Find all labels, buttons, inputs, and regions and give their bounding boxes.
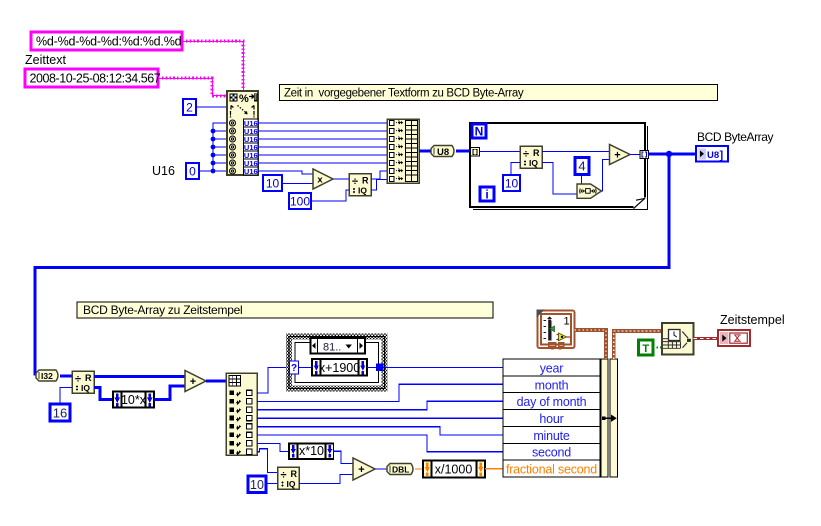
wire: 10*x to add (array)	[154, 386, 185, 400]
comment: BCD Byte-Array zu Zeitstempel	[77, 302, 493, 318]
svg-text:IQ: IQ	[358, 186, 367, 196]
wire: time string to scan node (pink string wire)	[158, 78, 227, 96]
node: Quotient &amp; Remainder (in loop)	[520, 146, 542, 168]
node: Scan From String (expanded, 7 outputs)	[227, 91, 258, 175]
numeric constant 4	[575, 158, 589, 175]
wire: index row3 to bundle day of month	[257, 401, 503, 410]
wire: format string to scan node (pink string wire)	[182, 41, 244, 91]
svg-text:month: month	[535, 378, 569, 392]
wire: 16 to QR y input	[60, 388, 72, 405]
wire: loop output to indicator and down (array)	[35, 154, 696, 376]
svg-text:10: 10	[505, 177, 519, 191]
numeric constant 16	[50, 404, 70, 421]
boolean constant T	[639, 340, 654, 355]
node: To I32 conversion	[36, 370, 58, 381]
wire: date-time to Zeitstempel (timestamp wire)	[694, 337, 719, 340]
svg-text:R: R	[85, 373, 92, 383]
indicator: Zeitstempel (timestamp)	[718, 330, 750, 346]
svg-text:IQ: IQ	[529, 158, 538, 168]
svg-text:10: 10	[250, 478, 264, 492]
structure: case frame	[289, 337, 385, 389]
wire: 100 to QR	[311, 190, 349, 201]
cluster constant (time record icon)	[536, 310, 574, 350]
svg-text:R: R	[533, 148, 540, 158]
svg-text:minute: minute	[533, 429, 570, 443]
wire: x*10 to add2	[333, 451, 353, 463]
node: Date/Time To Seconds	[662, 323, 694, 355]
svg-text:1: 1	[564, 316, 570, 328]
for loop corner flap	[634, 198, 647, 209]
wire: 2 to scan node	[196, 106, 227, 108]
wire: index row1 to case selector	[257, 368, 290, 394]
wire: logical shift to add	[602, 160, 610, 192]
wire: 0 to feed line	[199, 170, 213, 172]
numeric constant 10 (bottom)	[248, 476, 266, 493]
node: expression x/1000	[423, 461, 485, 478]
svg-text:Zeittext: Zeittext	[25, 53, 67, 67]
wire: multiply to QR	[333, 178, 349, 180]
svg-text:?: ?	[291, 363, 297, 374]
terminal i (iteration)	[480, 187, 494, 202]
node: x*10 expression	[289, 444, 333, 460]
svg-text:second: second	[532, 446, 571, 460]
wire: QR IQ output to build array row 8	[371, 180, 387, 191]
wire: add2 to DBL	[375, 468, 387, 470]
svg-text:year: year	[540, 361, 564, 375]
node: Quotient &amp; Remainder (bottom left)	[72, 371, 94, 393]
tunnel: case output (solid)	[377, 364, 384, 371]
svg-text:I32: I32	[41, 371, 53, 381]
svg-text:U16: U16	[152, 164, 175, 178]
wire: x+1900 to output tunnel	[367, 367, 377, 369]
svg-text:100: 100	[290, 195, 310, 209]
wire: ? to x+1900	[299, 367, 313, 369]
svg-text:i: i	[485, 188, 488, 202]
node: Build Array (8 inputs)	[387, 119, 419, 183]
junction dot	[666, 151, 672, 157]
svg-text:2: 2	[186, 101, 193, 115]
svg-text:2008-10-25-08:12:34.567: 2008-10-25-08:12:34.567	[30, 72, 161, 86]
svg-text:%: %	[239, 93, 249, 105]
node: expression 10*x	[113, 392, 154, 408]
wire: index row4 to bundle hour	[257, 417, 503, 419]
wires: scan outputs rows 1-6 to build array	[258, 123, 387, 163]
wire: scan output row 7 to multiply	[258, 171, 313, 174]
svg-text:+: +	[614, 150, 620, 162]
wire: QR IQ output to logical shift	[542, 163, 577, 195]
wire: cluster constant to bundle input (brown cluster wire)	[575, 330, 607, 359]
wire: add to index array (array)	[206, 380, 226, 383]
wire: 10 to QR2 y input	[266, 483, 278, 485]
node: add (in loop)	[610, 145, 631, 165]
svg-text:IQ: IQ	[287, 479, 296, 489]
wire: 4 to logical shift	[581, 175, 583, 185]
scan node: 7 type-input rings and U16 output boxes	[230, 119, 259, 176]
svg-text:IQ: IQ	[81, 383, 90, 393]
svg-text:N: N	[475, 125, 484, 139]
svg-text:Zeitstempel: Zeitstempel	[720, 313, 785, 327]
wire: I32 to QR (array)	[60, 375, 72, 378]
wire: 10 to QR y input	[511, 163, 520, 176]
svg-text:10*x: 10*x	[121, 393, 147, 407]
node: To U8 conversion	[431, 146, 454, 158]
wire: QR R output to add (array)	[94, 375, 185, 378]
svg-text:R: R	[291, 469, 298, 479]
svg-text:U8: U8	[707, 150, 719, 161]
wire: tunnel to QR (loop)	[480, 151, 521, 153]
wire: QR R output to add	[542, 151, 610, 153]
svg-text:%d-%d-%d-%d:%d:%d.%d: %d-%d-%d-%d:%d:%d.%d	[36, 35, 182, 49]
svg-text:T: T	[642, 343, 649, 355]
wire: index row6 to bundle second	[257, 435, 503, 452]
wire: feed line for scan default inputs	[213, 123, 227, 171]
wire: bundle output to date-time function (brown cluster wire)	[614, 331, 662, 359]
svg-text:x/1000: x/1000	[435, 463, 473, 477]
wire: U8 to for-loop tunnel (array)	[456, 150, 471, 153]
wire: index row5 to bundle minute	[257, 427, 503, 435]
structure: for loop frame	[470, 123, 648, 210]
numeric constant 10 (top)	[263, 175, 282, 191]
svg-text:day of month: day of month	[517, 395, 587, 409]
node: add (bottom left)	[185, 371, 206, 392]
svg-text:]: ]	[720, 149, 724, 161]
wire: DBL to x/1000 (orange)	[415, 468, 423, 470]
string constant: format "%d-%d-%d-%d:%d:%d.%d"	[31, 32, 182, 50]
svg-text:hour: hour	[539, 412, 563, 426]
svg-text:4: 4	[578, 159, 585, 174]
wire: QR R output to build array row 7	[371, 171, 387, 179]
case selector label "81.."	[311, 338, 366, 354]
numeric constant 2	[183, 99, 196, 115]
numeric constant 10 (in loop)	[503, 175, 520, 191]
svg-text:x: x	[317, 175, 323, 186]
indicator: BCD ByteArray [U8]	[696, 146, 728, 162]
svg-text:U16: U16	[244, 167, 258, 176]
wire: case output to bundle year	[383, 366, 503, 368]
svg-text:R: R	[362, 176, 369, 186]
svg-text:U8: U8	[437, 147, 449, 158]
node: Bundle By Name (7 elements)	[503, 359, 618, 477]
node: To DBL conversion	[387, 464, 413, 475]
svg-text:x+1900: x+1900	[319, 361, 360, 375]
wire: QR2 IQ to add2	[299, 475, 353, 484]
junction dots on feed line	[211, 129, 216, 174]
wire: add to output tunnel	[630, 154, 640, 156]
node: Quotient &amp; Remainder (bottom)	[278, 467, 300, 489]
numeric constant 100	[289, 193, 311, 209]
svg-text:DBL: DBL	[392, 465, 409, 475]
terminal N (loop count)	[472, 124, 486, 139]
svg-text:+: +	[190, 376, 196, 388]
wire: QR IQ output to 10*x (array)	[94, 388, 113, 400]
svg-text:x*10: x*10	[299, 444, 324, 458]
node: Quotient &amp; Remainder (top)	[349, 174, 371, 196]
svg-text:BCD Byte-Array zu Zeitstempel: BCD Byte-Array zu Zeitstempel	[83, 303, 242, 317]
wire: T to date-time function (green boolean)	[653, 347, 662, 349]
node: add2	[353, 458, 375, 480]
svg-text:16: 16	[53, 406, 67, 421]
wire: 10 to multiply	[282, 183, 313, 185]
svg-text:BCD ByteArray: BCD ByteArray	[697, 130, 774, 144]
svg-text:+: +	[358, 464, 364, 476]
tunnel: loop output (auto-indexing)	[640, 151, 649, 159]
tunnel: loop input (auto-indexing)	[471, 148, 480, 157]
numeric constant 0	[186, 163, 199, 179]
wire: index row7 to x*10	[257, 443, 289, 451]
comment: Zeit in vorgegebener Textform zu BCD Byte-Array	[280, 85, 718, 101]
node: multiply	[313, 169, 333, 189]
wire: index row2 to bundle month	[257, 384, 503, 401]
svg-text:fractional second: fractional second	[506, 463, 597, 477]
node: Index Array (8 outputs)	[226, 373, 257, 455]
string constant: "2008-10-25-08:12:34.567"	[25, 69, 161, 87]
node: Logical Shift	[577, 184, 602, 198]
wire: build array to U8 conversion (array)	[419, 150, 431, 153]
svg-text:81..: 81..	[323, 342, 341, 354]
wire: index row8 to QR x input	[257, 449, 278, 473]
wire: x/1000 to bundle fractional second (orange)	[485, 468, 503, 470]
svg-text:!: !	[229, 110, 232, 120]
svg-text:10: 10	[266, 177, 280, 191]
svg-text:Zeit in vorgegebener Textform: Zeit in vorgegebener Textform zu BCD Byt…	[284, 88, 524, 100]
node: expression x+1900	[312, 359, 367, 376]
case selector tunnel ?	[290, 361, 299, 374]
svg-text:0: 0	[189, 165, 196, 179]
